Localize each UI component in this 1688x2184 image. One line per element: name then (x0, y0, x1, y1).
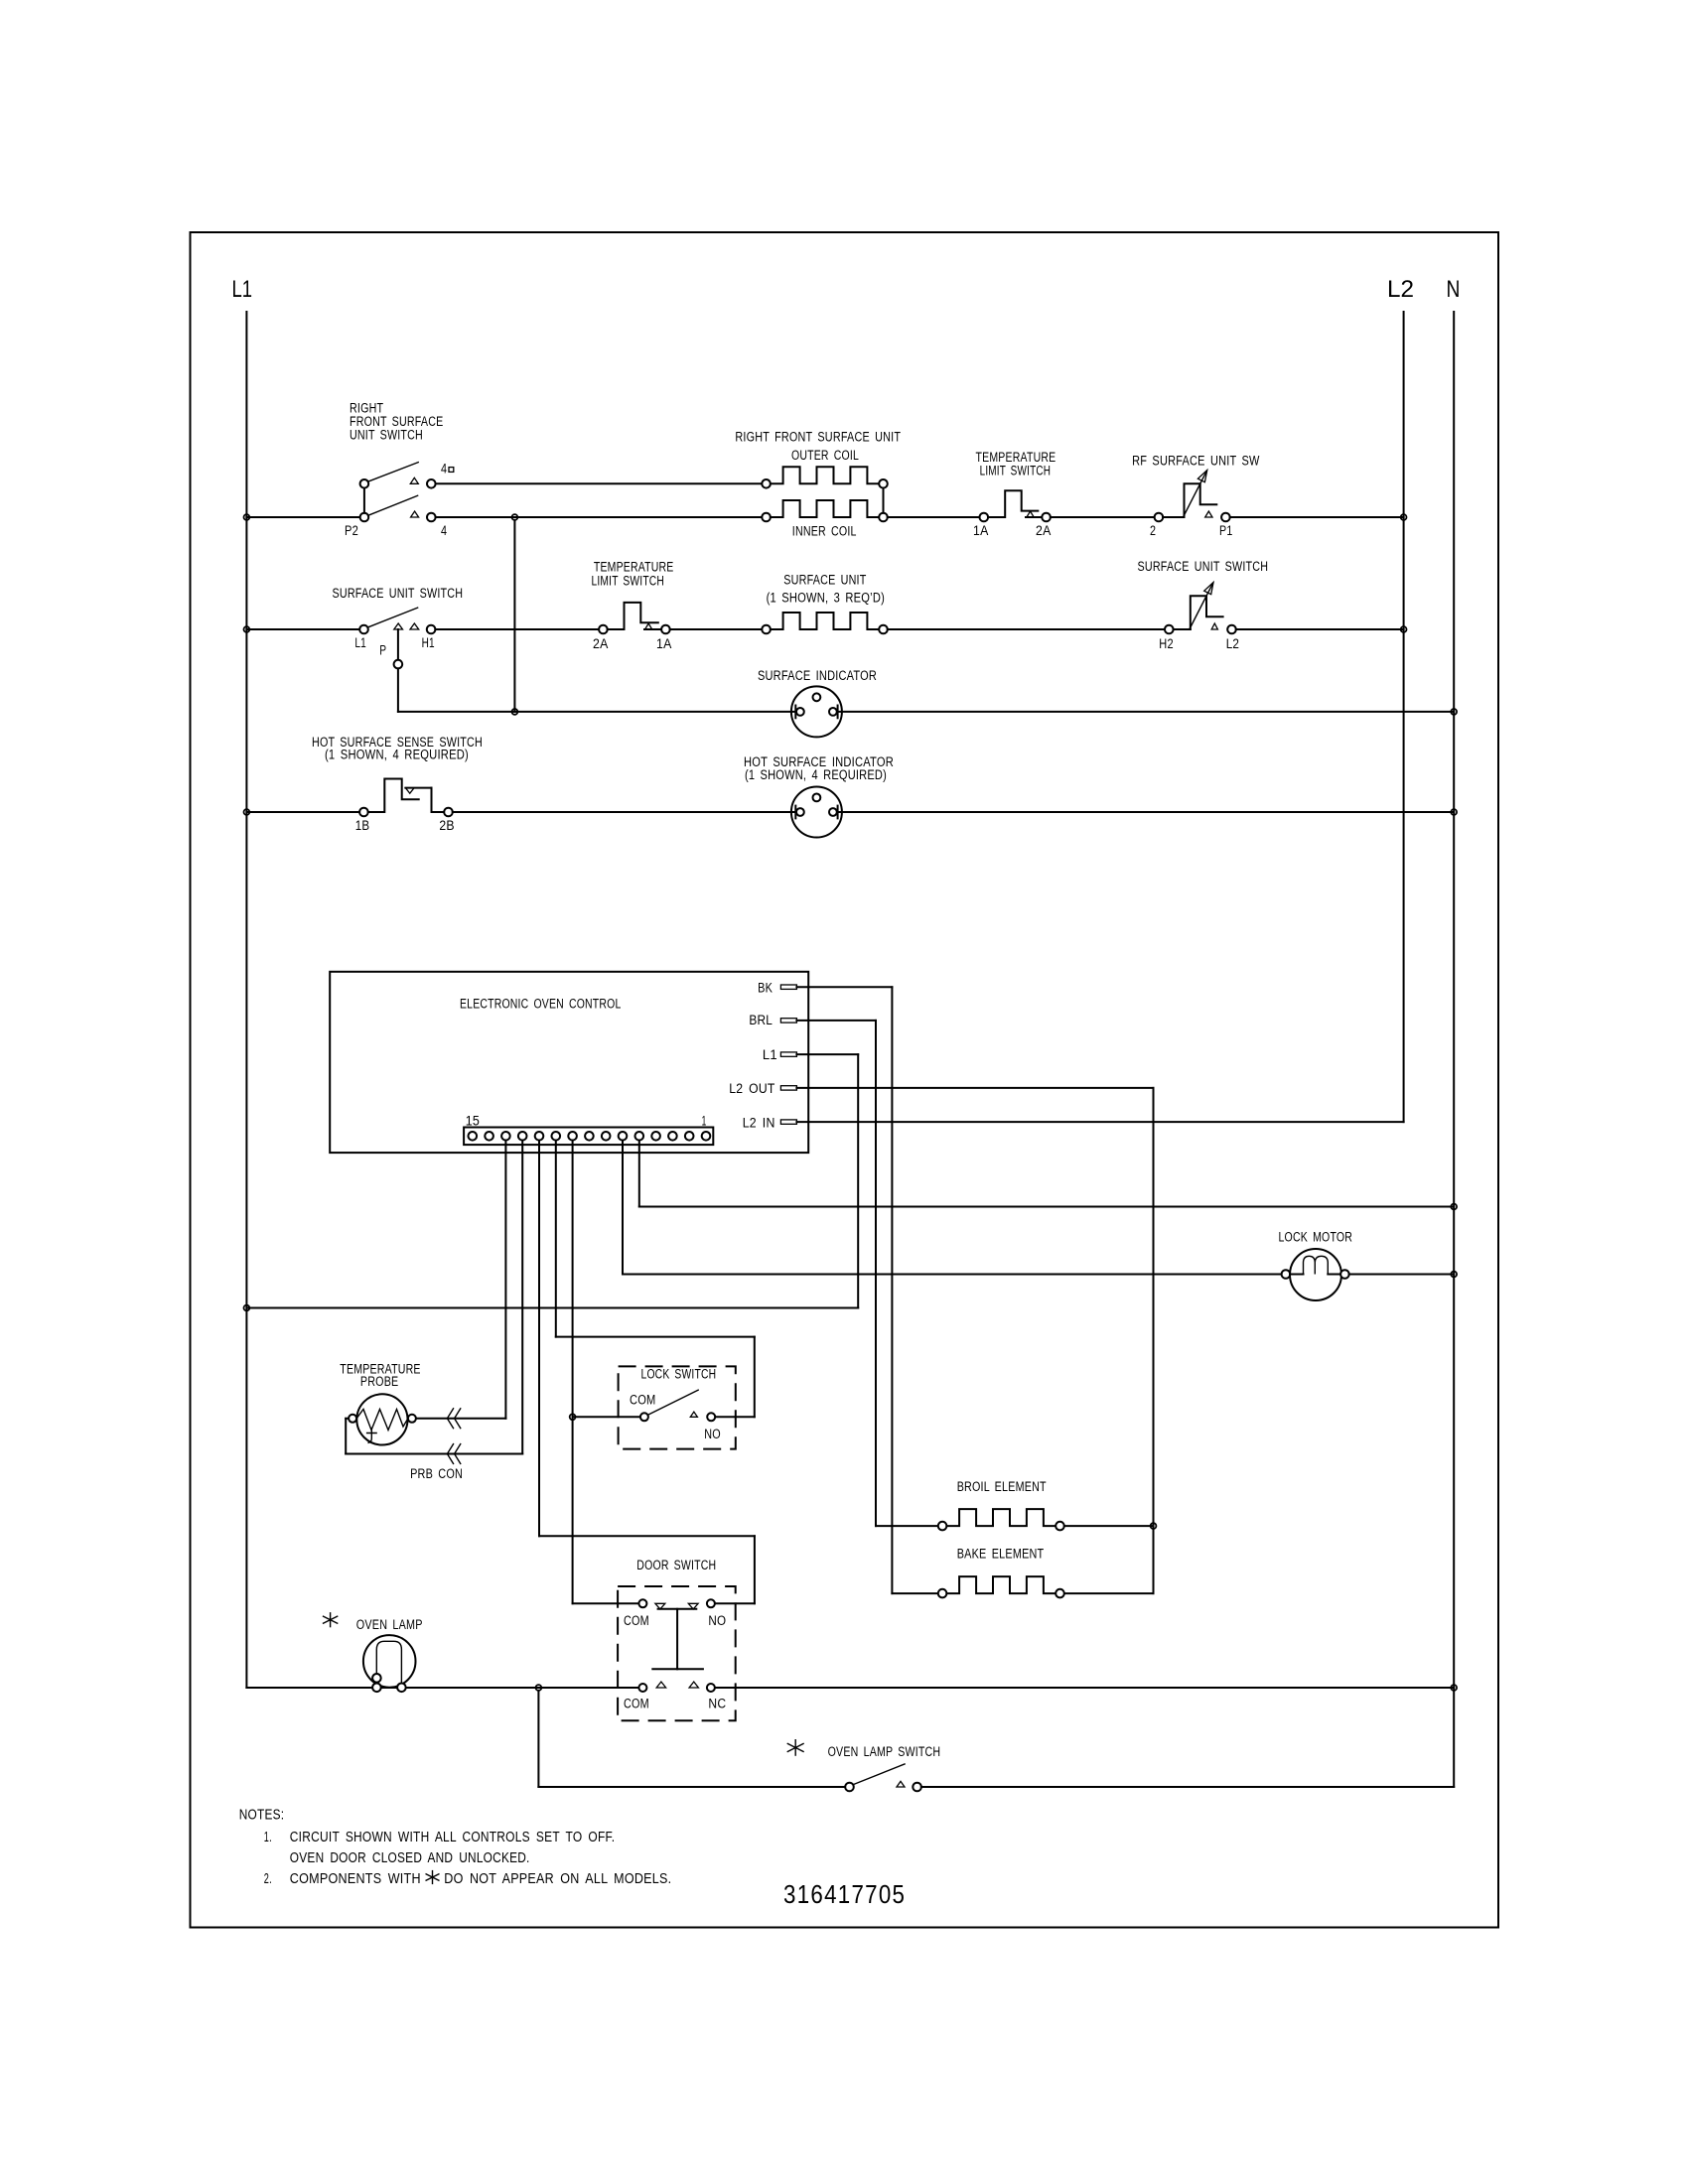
svg-text:N: N (1447, 276, 1461, 303)
wire lamp row drop to oven lamp switch row (537, 1691, 539, 1787)
svg-text:SURFACE UNIT SWITCH: SURFACE UNIT SWITCH (333, 586, 464, 601)
svg-text:COM: COM (624, 1613, 649, 1628)
node junction L2 bus row1 (1401, 514, 1407, 520)
resistor SURFACE UNIT (762, 573, 888, 634)
node junction N bus lock motor (1451, 1272, 1457, 1278)
svg-text:L1: L1 (763, 1047, 777, 1062)
node junction N bus indicator row (1451, 709, 1457, 715)
switch TEMPERATURE LIMIT SWITCH (row 1) (973, 450, 1055, 538)
svg-text:H2: H2 (1159, 636, 1174, 651)
wire junction down to surface indicator row (513, 520, 515, 712)
node junction L2 OUT broil row (1151, 1523, 1157, 1529)
node junction lamp row to lamp switch drop (536, 1685, 542, 1691)
wire P1 to L2 bus (1230, 516, 1404, 518)
svg-text:4: 4 (441, 461, 447, 476)
svg-text:H1: H1 (422, 635, 435, 650)
svg-text:P1: P1 (1219, 523, 1233, 538)
wire pin 3 to temperature probe (504, 1141, 506, 1419)
wire door switch NC to N bus (715, 1687, 1454, 1689)
svg-text:COMPONENTS WITH: COMPONENTS WITH (290, 1871, 421, 1887)
wire surface unit to H2 (888, 628, 1165, 630)
svg-text:316417705: 316417705 (783, 1879, 906, 1909)
svg-text:1A: 1A (656, 636, 672, 651)
svg-text:L1: L1 (354, 635, 366, 650)
wire L2 terminal to L2 bus (1236, 628, 1404, 630)
lamp OVEN LAMP (356, 1617, 423, 1692)
svg-text:COM: COM (630, 1393, 656, 1408)
svg-text:LIMIT SWITCH: LIMIT SWITCH (980, 464, 1052, 478)
wire L1 bus to 1B (246, 811, 359, 813)
wire pin 11 to N bus (638, 1141, 640, 1207)
switch OVEN LAMP SWITCH (828, 1744, 941, 1791)
wire lock motor to N bus (1349, 1274, 1455, 1276)
svg-text:SURFACE UNIT SWITCH: SURFACE UNIT SWITCH (1138, 559, 1269, 574)
wire 1A to surface unit (670, 628, 763, 630)
svg-text:2.: 2. (264, 1871, 272, 1887)
node junction L1 bus feed (244, 1305, 250, 1311)
resistor BAKE ELEMENT (938, 1547, 1064, 1598)
svg-text:2A: 2A (593, 636, 609, 651)
connector PRB CON chevrons (410, 1408, 463, 1481)
svg-text:2A: 2A (1036, 523, 1052, 538)
pin L2 IN terminal (743, 1116, 797, 1131)
wire inner coil to 1A (888, 516, 980, 518)
svg-text:BAKE ELEMENT: BAKE ELEMENT (957, 1547, 1045, 1562)
svg-text:OVEN LAMP: OVEN LAMP (356, 1617, 423, 1632)
svg-text:PRB CON: PRB CON (410, 1466, 463, 1481)
svg-text:LOCK SWITCH: LOCK SWITCH (641, 1367, 717, 1382)
node junction N bus pin11 (1451, 1204, 1457, 1210)
svg-text:INNER COIL: INNER COIL (792, 523, 857, 538)
wire L1 bus to L1 terminal (row 2) (246, 628, 359, 630)
svg-text:P2: P2 (345, 523, 358, 538)
svg-text:COM: COM (624, 1697, 649, 1711)
wire L1 terminal to L1 bus (796, 1053, 858, 1055)
wire L1 bus to oven lamp row (246, 1687, 638, 1689)
wire L1 bus to P2 (row 1) (246, 516, 359, 518)
switch SURFACE UNIT SWITCH (right) (1138, 559, 1269, 651)
resistor TEMPERATURE PROBE (340, 1361, 420, 1444)
svg-text:RF SURFACE UNIT SW: RF SURFACE UNIT SW (1132, 453, 1260, 468)
wire surface indicator to N bus (838, 711, 1455, 713)
svg-text:NO: NO (704, 1427, 721, 1441)
wire oven lamp switch to N bus (921, 1786, 1454, 1788)
wire L2 OUT to elements common (796, 1087, 1153, 1089)
wire pin 6 to lock switch NO (555, 1141, 557, 1337)
resistor RIGHT FRONT SURFACE UNIT INNER COIL (762, 500, 888, 538)
wire L2 IN to L2 bus (796, 1121, 1403, 1123)
svg-text:1B: 1B (355, 818, 370, 833)
svg-text:DO NOT APPEAR ON ALL MODELS.: DO NOT APPEAR ON ALL MODELS. (444, 1871, 671, 1887)
svg-text:P: P (379, 643, 386, 658)
svg-text:RIGHT FRONT SURFACE UNIT: RIGHT FRONT SURFACE UNIT (735, 430, 901, 445)
node junction L1 bus hot row (244, 809, 250, 815)
wire P down to surface indicator row (397, 668, 399, 712)
svg-text:L2 IN: L2 IN (743, 1116, 775, 1131)
switch S2 DOOR SWITCH (618, 1558, 736, 1721)
svg-text:BROIL ELEMENT: BROIL ELEMENT (957, 1479, 1047, 1494)
resistor RIGHT FRONT SURFACE UNIT OUTER COIL (735, 430, 901, 488)
resistor BROIL ELEMENT (938, 1479, 1064, 1530)
svg-text:UNIT SWITCH: UNIT SWITCH (350, 427, 423, 442)
svg-text:CIRCUIT SHOWN WITH ALL CONTROL: CIRCUIT SHOWN WITH ALL CONTROLS SET TO O… (290, 1830, 616, 1845)
pin BK terminal (758, 981, 796, 996)
node junction indicator row (512, 709, 518, 715)
lamp SURFACE INDICATOR (758, 668, 877, 737)
svg-text:(1 SHOWN, 4 REQUIRED): (1 SHOWN, 4 REQUIRED) (745, 767, 887, 782)
svg-text:PROBE: PROBE (360, 1374, 399, 1389)
wire P to surface indicator (398, 711, 795, 713)
switch SURFACE UNIT SWITCH (left) (333, 586, 464, 669)
wire 2A to terminal 2 (1051, 516, 1155, 518)
wire N bus vertical (1453, 312, 1455, 1787)
wire 2B to hot surface indicator (453, 811, 796, 813)
svg-text:(1 SHOWN, 4 REQUIRED): (1 SHOWN, 4 REQUIRED) (325, 748, 469, 762)
svg-text:TEMPERATURE: TEMPERATURE (594, 560, 674, 575)
wire L1 bus vertical (245, 312, 247, 1688)
svg-text:1: 1 (702, 1114, 707, 1129)
svg-text:OVEN DOOR CLOSED AND UNLOCKED.: OVEN DOOR CLOSED AND UNLOCKED. (290, 1850, 530, 1866)
wire broil element to L2 OUT junction (1064, 1525, 1154, 1527)
svg-text:2B: 2B (439, 818, 454, 833)
wire BRL to broil element feed (796, 1020, 876, 1022)
svg-text:15: 15 (466, 1114, 480, 1129)
node junction L2 bus row2 (1401, 626, 1407, 632)
pin L2 OUT terminal (729, 1081, 796, 1096)
svg-text:OVEN LAMP SWITCH: OVEN LAMP SWITCH (828, 1744, 941, 1759)
node junction N bus lamp row (1451, 1685, 1457, 1691)
svg-text:L2: L2 (1226, 636, 1240, 651)
wire hot surface indicator to N bus (838, 811, 1455, 813)
svg-text:BK: BK (758, 981, 773, 996)
lamp HOT SURFACE INDICATOR (744, 754, 894, 838)
svg-text:SURFACE UNIT: SURFACE UNIT (783, 573, 866, 588)
component marker asterisk (oven lamp switch) (794, 1739, 796, 1756)
wire BK to broil... (BK to bake element feed) (796, 986, 892, 988)
svg-text:L2 OUT: L2 OUT (729, 1081, 774, 1096)
svg-text:DOOR SWITCH: DOOR SWITCH (636, 1558, 716, 1572)
switch TEMPERATURE LIMIT SWITCH (row 2) (592, 560, 674, 651)
wire pin 7 to lock switch COM and door switch COM (572, 1141, 574, 1604)
node junction L1 bus row1 (244, 514, 250, 520)
node junction N bus hot row (1451, 809, 1457, 815)
wire contact 4a to outer coil (436, 482, 763, 484)
svg-text:OUTER COIL: OUTER COIL (791, 448, 859, 463)
svg-text:SURFACE INDICATOR: SURFACE INDICATOR (758, 668, 877, 683)
wire link between coils (883, 488, 885, 513)
motor M1 LOCK MOTOR (1279, 1230, 1353, 1300)
wire pin 5 to door switch NO (538, 1141, 540, 1537)
svg-text:L2: L2 (1387, 276, 1414, 303)
svg-text:ELECTRONIC OVEN CONTROL: ELECTRONIC OVEN CONTROL (460, 997, 622, 1012)
wire H1 to 2A (435, 628, 599, 630)
svg-text:2: 2 (1150, 523, 1156, 538)
switch HOT SURFACE SENSE SWITCH (312, 735, 483, 833)
node junction L1 bus row2 (244, 626, 250, 632)
switch RIGHT FRONT SURFACE UNIT SWITCH (345, 400, 454, 538)
svg-text:NOTES:: NOTES: (239, 1807, 285, 1823)
wire pin 4 to probe return (521, 1141, 523, 1454)
svg-text:NO: NO (708, 1613, 726, 1628)
svg-text:L1: L1 (232, 276, 253, 303)
svg-text:1A: 1A (973, 523, 989, 538)
svg-text:LIMIT SWITCH: LIMIT SWITCH (592, 573, 665, 588)
svg-text:LOCK MOTOR: LOCK MOTOR (1279, 1230, 1353, 1245)
svg-text:1.: 1. (264, 1830, 272, 1845)
wire contact 4 to inner coil (436, 516, 763, 518)
op-amp U1 ELECTRONIC OVEN CONTROL box (330, 972, 808, 1153)
svg-text:(1 SHOWN, 3 REQ’D): (1 SHOWN, 3 REQ’D) (767, 590, 885, 605)
svg-text:4: 4 (441, 523, 447, 538)
svg-text:NC: NC (708, 1697, 726, 1711)
connector J1 15-pin strip (464, 1114, 713, 1146)
switch S1 LOCK SWITCH (619, 1366, 736, 1448)
node junction row1 drop (512, 514, 518, 520)
pin L1 terminal (763, 1047, 797, 1062)
svg-text:BRL: BRL (749, 1013, 773, 1027)
component marker asterisk (oven lamp) (330, 1612, 332, 1627)
switch RF SURFACE UNIT SW (1132, 453, 1260, 538)
wire pin 10 to lock motor (622, 1141, 624, 1275)
pin BRL terminal (749, 1013, 796, 1027)
wire L2 bus vertical (1403, 312, 1405, 1122)
